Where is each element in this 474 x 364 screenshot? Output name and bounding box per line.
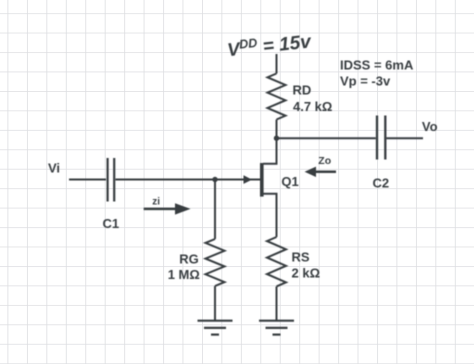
wire RS to ground bbox=[276, 287, 278, 321]
ground RG bbox=[198, 321, 233, 335]
wire C2 to Vo bbox=[387, 137, 424, 139]
svg-text:1 MΩ: 1 MΩ bbox=[168, 267, 200, 282]
svg-text:RS: RS bbox=[292, 250, 310, 265]
arrow Zo bbox=[305, 167, 336, 177]
node VDD label = 15v bbox=[226, 30, 313, 61]
wire drain node to C2 bbox=[277, 137, 376, 139]
transistor Q1 channel bar bbox=[260, 163, 264, 197]
transistor Q1 gate arrowhead bbox=[244, 175, 253, 184]
resistor R_S bbox=[267, 237, 286, 286]
svg-text:4.7 kΩ: 4.7 kΩ bbox=[293, 99, 332, 114]
svg-text:Vi: Vi bbox=[48, 160, 60, 175]
capacitor C2 bbox=[377, 116, 385, 160]
svg-text:zi: zi bbox=[152, 196, 160, 207]
transistor Q1 gate wire bbox=[215, 179, 260, 181]
wire RD to drain node bbox=[276, 120, 278, 139]
wire Vi input bbox=[69, 179, 106, 181]
svg-text:2 kΩ: 2 kΩ bbox=[292, 266, 321, 281]
svg-text:IDSS = 6mA: IDSS = 6mA bbox=[340, 58, 414, 73]
resistor R_G bbox=[206, 239, 225, 286]
svg-text:C1: C1 bbox=[103, 216, 120, 231]
svg-text:Vp = -3v: Vp = -3v bbox=[340, 74, 391, 89]
wire RG to ground bbox=[214, 286, 216, 320]
ground RS bbox=[259, 321, 294, 335]
svg-text:Q1: Q1 bbox=[281, 174, 298, 189]
resistor R_D bbox=[268, 74, 286, 120]
wire C1 to gate node bbox=[116, 179, 216, 181]
transistor Q1 drain lead bbox=[263, 138, 277, 164]
svg-text:C2: C2 bbox=[373, 176, 390, 191]
svg-text:RG: RG bbox=[179, 251, 199, 266]
arrow zi bbox=[144, 203, 191, 214]
label RG 1 MOhm bbox=[168, 251, 200, 282]
svg-text:RD: RD bbox=[293, 83, 312, 98]
label RS 2 kOhm bbox=[292, 250, 321, 281]
node gate junction bbox=[212, 177, 217, 182]
svg-text:Zo: Zo bbox=[318, 155, 331, 167]
label RD 4.7 kOhm bbox=[293, 83, 333, 115]
node drain junction bbox=[274, 136, 279, 141]
svg-text:Vo: Vo bbox=[422, 119, 438, 134]
transistor Q1 source lead bbox=[263, 194, 277, 237]
capacitor C1 bbox=[108, 158, 115, 202]
wire VDD to RD bbox=[276, 54, 278, 74]
wire gate node to RG bbox=[214, 180, 216, 240]
